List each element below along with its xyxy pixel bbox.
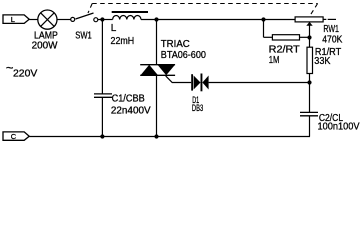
- label LAMP 200W: [32, 30, 58, 51]
- inductor L 22mH: [112, 12, 148, 20]
- wire C1 to bottom rail: [101, 97, 103, 136]
- svg-text:BTA06-600: BTA06-600: [161, 50, 206, 61]
- wire R2 to node E: [300, 36, 310, 38]
- wire R1 to node D: [309, 74, 311, 83]
- wire terminal L to lamp: [29, 19, 38, 21]
- triac Q1 BTA06-600: [140, 65, 175, 76]
- capacitor C2/CL 100n100V: [300, 112, 318, 115]
- svg-text:200W: 200W: [32, 41, 58, 52]
- wire SW1 to node A: [98, 19, 113, 21]
- svg-text:100n100V: 100n100V: [318, 122, 360, 133]
- wire C2 to bottom rail: [309, 116, 311, 137]
- potentiometer RW1 470K: [295, 17, 336, 47]
- svg-text:22mH: 22mH: [111, 36, 135, 47]
- wire triac MT2: [156, 20, 158, 65]
- svg-text:220V: 220V: [13, 68, 37, 79]
- bottom rail wire: [29, 136, 310, 138]
- lamp LAMP1: [38, 10, 57, 29]
- terminal L: [3, 15, 29, 24]
- svg-text:33K: 33K: [314, 56, 330, 67]
- node C junction (R2 branch): [261, 17, 265, 21]
- label TRIAC BTA06-600: [161, 39, 206, 61]
- resistor R2/RT 1M: [272, 35, 299, 40]
- wire C1 branch down: [101, 20, 103, 94]
- wire inductor to node B and to right: [141, 19, 295, 21]
- node A junction: [100, 17, 104, 21]
- svg-text:470K: 470K: [322, 34, 342, 45]
- label D1 DB3: [192, 95, 203, 113]
- svg-text:C1/CBB: C1/CBB: [112, 94, 145, 105]
- svg-text:1M: 1M: [269, 55, 280, 66]
- node E junction: [307, 35, 311, 39]
- label R2/RT 1M: [269, 45, 300, 66]
- svg-text:SW1: SW1: [75, 31, 92, 42]
- node B junction (triac MT2): [154, 17, 158, 21]
- junction MT1 bottom: [154, 134, 158, 138]
- label L 22mH: [111, 23, 135, 47]
- label C2/CL 100n100V: [318, 113, 360, 133]
- wire triac gate: [166, 76, 192, 83]
- label R1/RT 33K: [314, 47, 341, 67]
- node D junction: [307, 80, 311, 84]
- svg-text:C: C: [11, 132, 17, 141]
- svg-text:TRIAC: TRIAC: [161, 39, 190, 50]
- capacitor C1/CBB 22n400V: [94, 94, 112, 97]
- wire triac MT1 down: [156, 75, 158, 136]
- label RW1 470K: [322, 24, 342, 45]
- terminal C: [3, 132, 29, 140]
- wire node D to C2: [309, 83, 311, 113]
- wire R2 branch down: [263, 20, 265, 38]
- wire diac to node D: [209, 82, 310, 84]
- svg-text:DB3: DB3: [192, 103, 203, 113]
- svg-text:L: L: [11, 15, 15, 24]
- wire lamp to SW1: [57, 19, 71, 21]
- svg-text:22n400V: 22n400V: [111, 106, 151, 117]
- svg-text:L: L: [111, 23, 117, 34]
- junction C1 bottom: [100, 134, 104, 138]
- resistor R1/RT 33K: [307, 47, 313, 73]
- diac D1 DB3: [192, 74, 209, 92]
- mechanical coupling dashed line SW1 to RW1: [88, 4, 318, 16]
- label C1/CBB 22n400V: [111, 94, 151, 117]
- switch SW1: [71, 13, 98, 22]
